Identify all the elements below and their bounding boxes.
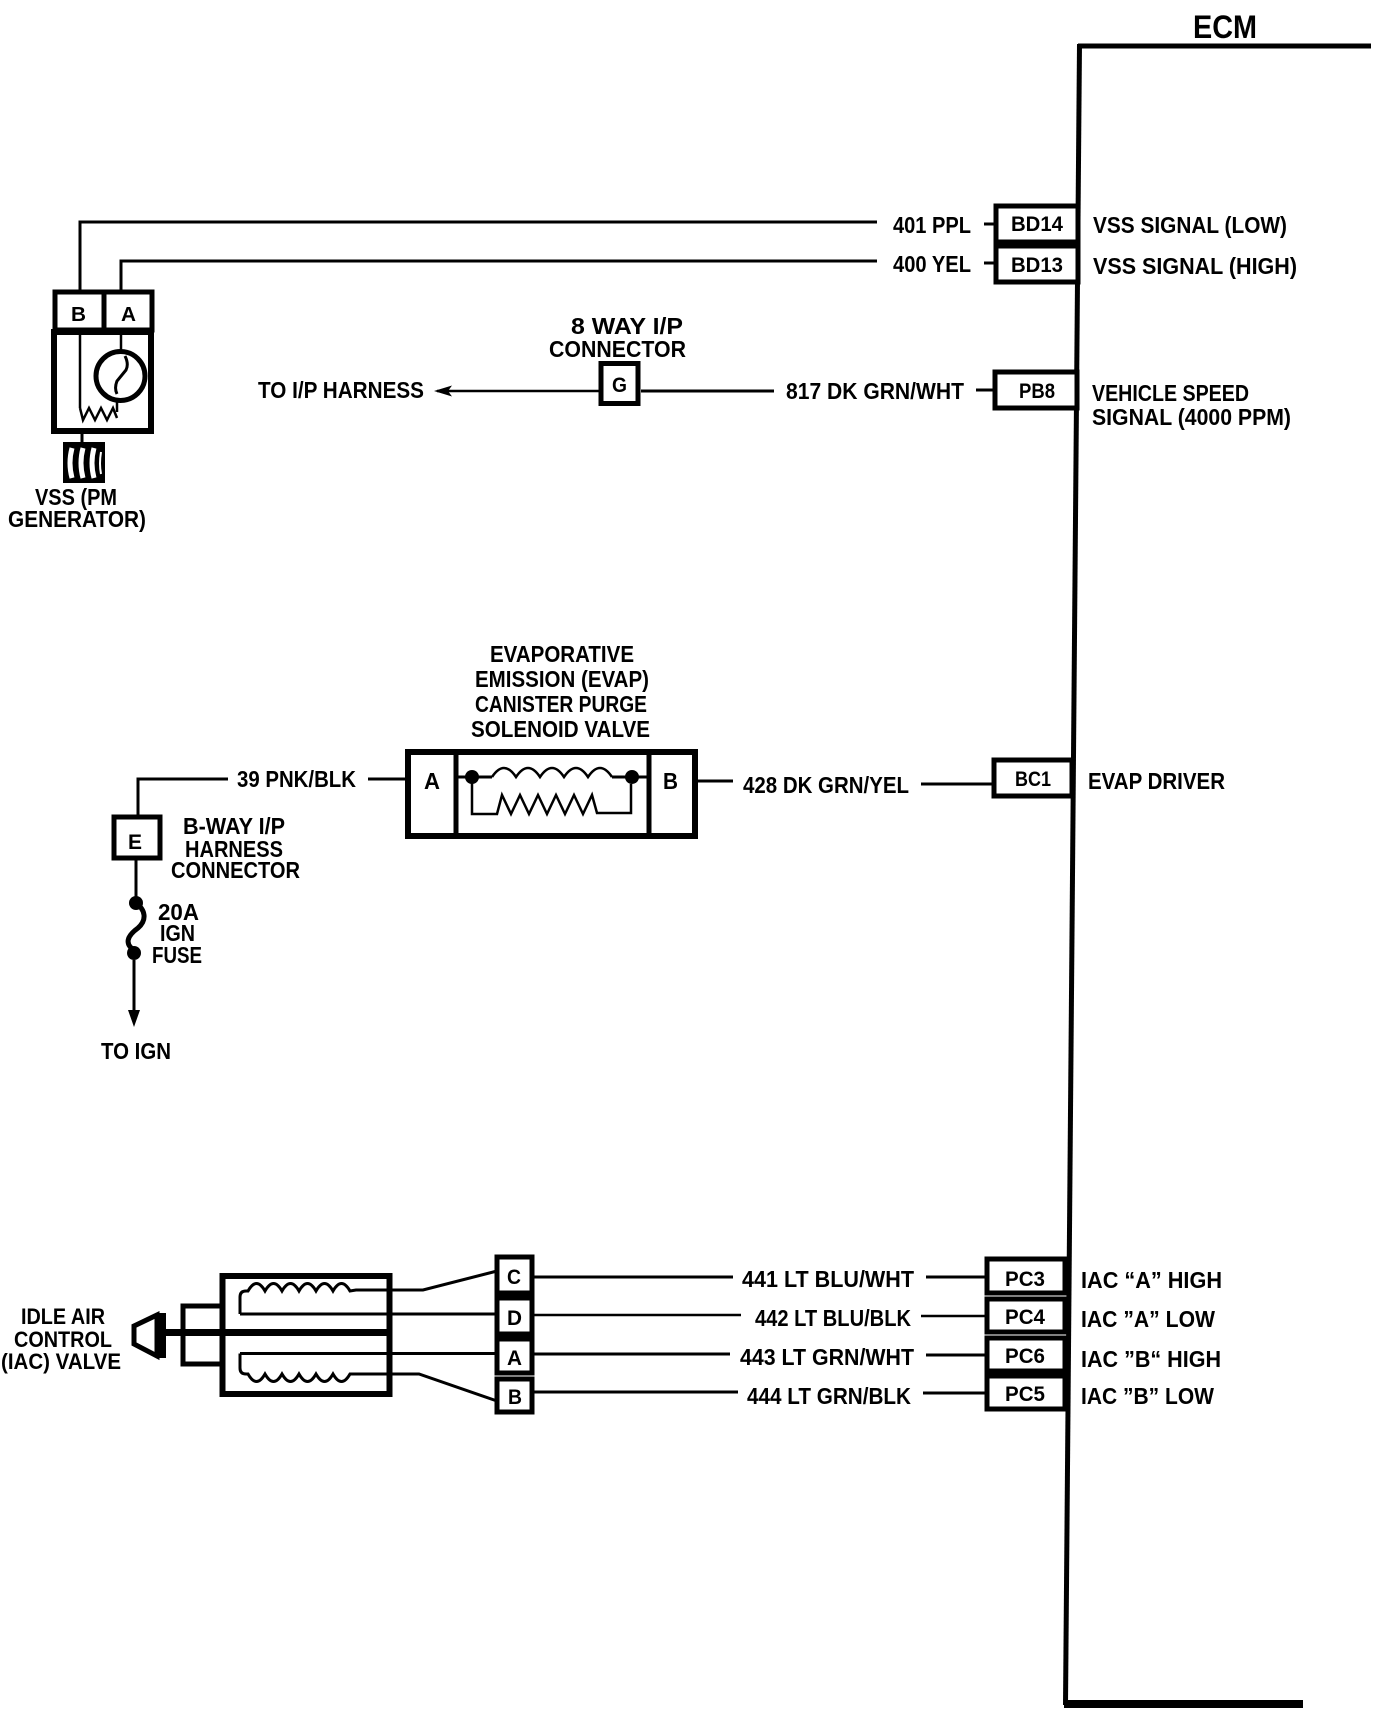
svg-text:IAC ”B” LOW: IAC ”B” LOW — [1081, 1383, 1214, 1409]
ECM box top edge — [1078, 44, 1371, 49]
svg-text:IAC ”A” LOW: IAC ”A” LOW — [1081, 1306, 1215, 1332]
wire 39 PNK/BLK — [138, 779, 408, 816]
svg-text:TO I/P HARNESS: TO I/P HARNESS — [258, 377, 424, 403]
svg-text:EVAP DRIVER: EVAP DRIVER — [1088, 768, 1225, 794]
wire E to fuse — [135, 860, 138, 898]
svg-text:BD14: BD14 — [1011, 213, 1063, 236]
IAC coil B (bottom) with wire to A and B — [240, 1354, 497, 1402]
svg-text:SIGNAL (4000 PPM): SIGNAL (4000 PPM) — [1092, 404, 1291, 430]
EVAP solenoid valve body — [408, 750, 695, 838]
fuse 20A IGN — [127, 896, 144, 960]
wire 400 YEL — [121, 261, 997, 290]
EVAP internal resistor loop — [472, 783, 631, 814]
pin BD13 — [996, 246, 1078, 282]
svg-text:ECM: ECM — [1193, 9, 1257, 45]
IAC valve body — [223, 1276, 390, 1394]
svg-text:TO IGN: TO IGN — [101, 1038, 171, 1064]
svg-text:FUSE: FUSE — [152, 942, 202, 968]
pin PC3 — [987, 1259, 1065, 1293]
svg-text:A: A — [507, 1347, 522, 1370]
EVAP coil — [456, 768, 649, 784]
pin BC1 — [994, 760, 1072, 796]
svg-text:IAC ”B“ HIGH: IAC ”B“ HIGH — [1081, 1346, 1221, 1372]
svg-text:EVAPORATIVE: EVAPORATIVE — [490, 641, 634, 667]
wire 441 LT BLU/WHT — [534, 1276, 986, 1279]
svg-text:A: A — [121, 304, 136, 326]
svg-text:PC5: PC5 — [1005, 1383, 1045, 1406]
pin PC4 — [987, 1299, 1065, 1332]
svg-text:VSS SIGNAL (LOW): VSS SIGNAL (LOW) — [1093, 212, 1287, 238]
connector E box — [114, 817, 160, 858]
ECM box left edge — [1066, 44, 1080, 1705]
pin BD14 — [996, 206, 1078, 242]
svg-text:C: C — [507, 1266, 521, 1289]
svg-text:G: G — [612, 374, 627, 397]
connector G box — [601, 364, 638, 404]
IAC valve cone — [134, 1313, 166, 1358]
IAC coil A (top) with wire to C and D — [240, 1271, 497, 1314]
svg-text:BD13: BD13 — [1011, 254, 1063, 277]
svg-text:441 LT BLU/WHT: 441 LT BLU/WHT — [742, 1266, 914, 1292]
svg-text:B: B — [508, 1386, 522, 1409]
wire 442 LT BLU/BLK — [534, 1315, 986, 1316]
wire 428 DK GRN/YEL — [695, 781, 994, 784]
wire pin A to generator circle — [120, 330, 123, 352]
wire circle to resistor — [116, 399, 119, 412]
wire fuse to IGN arrow — [133, 960, 136, 1010]
connector D box — [497, 1298, 532, 1334]
svg-text:B: B — [71, 304, 86, 326]
svg-text:PC6: PC6 — [1005, 1345, 1045, 1368]
svg-text:D: D — [507, 1307, 522, 1330]
svg-text:IAC “A” HIGH: IAC “A” HIGH — [1081, 1267, 1222, 1293]
wire 817 DK GRN/WHT — [641, 390, 994, 391]
ECM box bottom edge — [1064, 1700, 1303, 1708]
VSS coil symbol — [63, 442, 105, 483]
pin PB8 — [995, 372, 1077, 408]
pin PC5 — [987, 1376, 1065, 1409]
svg-text:428 DK GRN/YEL: 428 DK GRN/YEL — [743, 772, 909, 798]
svg-text:B: B — [663, 768, 678, 794]
svg-text:817 DK GRN/WHT: 817 DK GRN/WHT — [786, 378, 964, 404]
pin PC6 — [987, 1338, 1065, 1371]
svg-text:PC3: PC3 — [1005, 1268, 1045, 1291]
svg-text:CANISTER PURGE: CANISTER PURGE — [475, 691, 647, 717]
connector B box — [497, 1379, 532, 1412]
connector A box — [497, 1339, 532, 1373]
wire pin B to resistor — [79, 330, 82, 408]
svg-text:400 YEL: 400 YEL — [893, 251, 971, 277]
svg-text:PC4: PC4 — [1005, 1306, 1045, 1329]
svg-text:(IAC) VALVE: (IAC) VALVE — [1, 1349, 121, 1374]
wire 443 LT GRN/WHT — [534, 1354, 986, 1355]
svg-text:401 PPL: 401 PPL — [893, 212, 971, 238]
svg-text:GENERATOR): GENERATOR) — [8, 506, 146, 532]
svg-text:444 LT GRN/BLK: 444 LT GRN/BLK — [747, 1383, 911, 1409]
svg-text:39 PNK/BLK: 39 PNK/BLK — [237, 766, 356, 792]
IAC valve shaft — [165, 1329, 389, 1336]
svg-text:PB8: PB8 — [1019, 380, 1055, 403]
wire VSS body to coil symbol — [81, 431, 84, 444]
svg-text:BC1: BC1 — [1015, 768, 1051, 791]
svg-text:VEHICLE SPEED: VEHICLE SPEED — [1092, 380, 1249, 406]
svg-text:VSS SIGNAL (HIGH): VSS SIGNAL (HIGH) — [1093, 253, 1297, 279]
svg-text:SOLENOID VALVE: SOLENOID VALVE — [471, 716, 650, 742]
VSS PM generator body — [54, 332, 151, 431]
resistor zigzag in VSS — [80, 408, 117, 420]
arrow to I/P harness — [434, 386, 452, 397]
VSS connector pins B and A — [55, 292, 152, 330]
svg-text:E: E — [128, 831, 142, 854]
svg-text:442 LT BLU/BLK: 442 LT BLU/BLK — [755, 1305, 911, 1331]
IAC valve step block — [183, 1306, 222, 1364]
wire 444 LT GRN/BLK — [534, 1392, 986, 1393]
svg-text:CONNECTOR: CONNECTOR — [549, 336, 686, 362]
wire 401 PPL — [80, 222, 997, 290]
svg-text:A: A — [424, 768, 440, 794]
svg-text:IDLE AIR: IDLE AIR — [21, 1304, 105, 1329]
svg-text:443 LT GRN/WHT: 443 LT GRN/WHT — [740, 1344, 914, 1370]
generator circle with sine — [96, 352, 145, 401]
svg-text:EMISSION (EVAP): EMISSION (EVAP) — [475, 666, 649, 692]
connector C box — [497, 1257, 532, 1293]
svg-text:CONNECTOR: CONNECTOR — [171, 857, 300, 883]
